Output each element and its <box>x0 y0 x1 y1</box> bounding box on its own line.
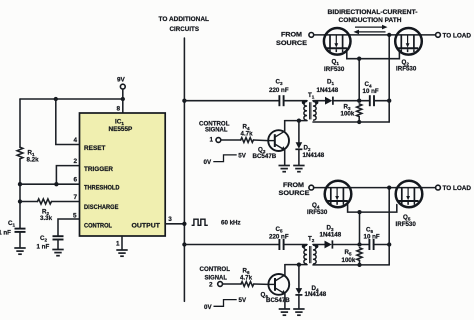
svg-text:10 nF: 10 nF <box>363 88 379 95</box>
arrow: conduction right <box>355 25 388 30</box>
svg-text:CIRCUITS: CIRCUITS <box>170 26 200 33</box>
label: TO ADDITIONAL CIRCUITS <box>159 16 210 33</box>
wire: left rail lower segment <box>19 159 21 228</box>
label: CONTROL SIGNAL 2 <box>200 266 231 289</box>
svg-text:0V: 0V <box>204 159 212 166</box>
wire: Q1 to Q2 <box>351 34 396 36</box>
ground under Q6 emitter <box>279 309 290 315</box>
capacitor C6 <box>364 227 380 251</box>
svg-text:1N4148: 1N4148 <box>305 291 327 298</box>
svg-text:4: 4 <box>74 137 78 144</box>
svg-text:SOURCE: SOURCE <box>279 190 310 197</box>
capacitor C1 <box>0 220 25 237</box>
wire: main oscillator bus <box>183 38 185 301</box>
svg-text:1N4148: 1N4148 <box>303 152 325 159</box>
capacitor C4 <box>363 81 379 106</box>
wire: D3 to gate node (channel 2) <box>332 244 368 246</box>
svg-text:BC547B: BC547B <box>266 297 290 304</box>
wire: C5 to T2 primary top <box>284 244 307 246</box>
wire: Q2 to load terminal <box>422 34 436 36</box>
wire: collector line to T2 primary bottom <box>285 264 307 266</box>
resistor R5 <box>342 248 363 265</box>
terminal: control signal 1 input <box>216 138 221 143</box>
wire: Q6 collector up to transformer line <box>284 265 286 276</box>
op-amp/timer IC U1 NE555P box <box>80 113 166 236</box>
label: BIDIRECTIONAL-CURRENT-CONDUCTION PATH <box>328 9 418 24</box>
ground under C2 <box>52 250 63 256</box>
svg-text:DISCHARGE: DISCHARGE <box>84 204 119 211</box>
svg-text:IRF530: IRF530 <box>396 66 417 73</box>
waveform: 0V/5V step (channel 2) <box>204 297 247 311</box>
node: bus / channel1 branch <box>182 99 186 103</box>
wire: Q3 emitter down to ground <box>284 150 286 165</box>
svg-text:CONTROL: CONTROL <box>84 223 112 230</box>
terminal: TO LOAD (channel 1) <box>436 33 472 40</box>
svg-text:4.7k: 4.7k <box>240 275 253 282</box>
MOSFET Q4 IRF530 <box>307 181 351 216</box>
wire: C3 to T1 primary top <box>284 100 307 102</box>
arrow: conduction left <box>354 30 386 35</box>
wire: Q4 to Q5 <box>351 187 395 189</box>
svg-text:7: 7 <box>74 194 78 201</box>
svg-text:60 kHz: 60 kHz <box>221 219 241 226</box>
resistor R4 <box>241 124 254 143</box>
svg-text:100k: 100k <box>341 111 355 118</box>
node: gate node / R3 top <box>357 99 361 103</box>
diode D4 1N4148 <box>295 265 326 309</box>
node: discharge line / left rail <box>18 199 22 203</box>
svg-text:CONTROL: CONTROL <box>200 266 231 273</box>
MOSFET Q1 IRF530 <box>324 28 351 73</box>
wire: secondary return bottom line (channel 2) <box>313 264 389 266</box>
wire: R5 bottom to secondary return (channel 2) <box>359 260 361 265</box>
svg-text:FROM: FROM <box>283 182 304 189</box>
terminal: FROM SOURCE (channel 2) <box>279 182 314 197</box>
ground under Q3 emitter <box>279 166 290 172</box>
svg-text:SOURCE: SOURCE <box>276 40 307 47</box>
wire: C6 to common node riser (channel 2) <box>374 244 390 246</box>
svg-text:5V: 5V <box>238 153 246 160</box>
wire: discharge line left part <box>20 201 38 203</box>
resistor R2 <box>38 199 53 222</box>
wire: D1 to gate node <box>333 100 369 102</box>
svg-text:SIGNAL: SIGNAL <box>205 275 228 282</box>
node: common tap on Q4-Q5 wire <box>387 185 391 189</box>
svg-text:4.7k: 4.7k <box>241 131 254 138</box>
svg-text:RESET: RESET <box>84 145 106 152</box>
node: gate line tap (channel 2) <box>357 210 361 214</box>
svg-text:9V: 9V <box>117 77 126 84</box>
wire: common riser from Q4-Q5 wire down to secondary return (channel 2) <box>388 188 390 265</box>
wire: R6 to Q6 base <box>254 283 269 285</box>
svg-text:SIGNAL: SIGNAL <box>205 127 228 134</box>
capacitor C2 <box>37 235 64 251</box>
svg-text:1N4148: 1N4148 <box>317 87 339 94</box>
resistor R6 <box>240 268 254 287</box>
transistor Q3 BC547B <box>253 130 290 160</box>
node: common node / C4 <box>387 99 391 103</box>
svg-text:5V: 5V <box>239 297 247 304</box>
svg-text:8: 8 <box>117 106 121 113</box>
wire: 9V terminal to pin 8 <box>122 89 124 113</box>
wire: discharge line right part (pin 7) <box>52 201 80 203</box>
svg-text:1 nF: 1 nF <box>0 230 11 237</box>
node: gate line tap <box>357 57 361 61</box>
diode D1 1N4148 <box>317 79 339 105</box>
wire: gate node riser to gate line (channel 2) <box>359 212 361 244</box>
wire: channel 1 branch to C3 <box>184 100 278 102</box>
svg-text:100k: 100k <box>342 257 356 264</box>
wire: Q3 collector up to transformer line <box>284 121 286 132</box>
wire: control 1 to R4 <box>221 139 241 141</box>
wire: gate node riser to gate line <box>358 59 360 101</box>
wire: from-source to Q1 <box>314 34 324 36</box>
transistor Q6 BC547B <box>261 274 291 304</box>
wire: left rail upper segment <box>19 99 21 147</box>
diode D3 1N4148 <box>320 225 342 249</box>
svg-text:CONDUCTION PATH: CONDUCTION PATH <box>339 17 403 24</box>
svg-text:IRF530: IRF530 <box>396 221 417 228</box>
resistor R3 <box>341 104 362 118</box>
svg-text:2: 2 <box>209 282 213 289</box>
wire: threshold line (pin 6) <box>20 183 80 185</box>
svg-text:NE555P: NE555P <box>109 126 134 133</box>
node: R3 bottom junction <box>357 120 361 124</box>
diode D2 1N4148 <box>295 121 324 165</box>
wire: gate line between Q4 and Q5 <box>348 201 397 212</box>
svg-text:1: 1 <box>210 137 214 144</box>
ground under D2 <box>293 166 304 172</box>
MOSFET Q5 IRF530 <box>396 181 423 228</box>
svg-text:8.2k: 8.2k <box>27 157 40 164</box>
transformer T1 <box>302 92 319 120</box>
svg-text:3.3k: 3.3k <box>40 215 53 222</box>
wire: collector line to T1 primary bottom <box>285 120 307 122</box>
wire: control stub (pin 5) down to C2 <box>58 219 80 236</box>
9V supply terminal <box>117 77 126 90</box>
wire: secondary return bottom line <box>313 121 389 123</box>
svg-text:TO LOAD: TO LOAD <box>443 33 472 40</box>
ground under D4 <box>293 309 304 315</box>
node: bus / channel2 branch <box>182 242 186 246</box>
wire: control 2 to R6 <box>223 283 242 285</box>
svg-text:BC547B: BC547B <box>253 153 277 160</box>
wire: channel 2 branch to C5 <box>184 244 278 246</box>
svg-text:TRIGGER: TRIGGER <box>84 166 113 173</box>
wire: C2 to ground <box>57 240 59 250</box>
svg-text:1 nF: 1 nF <box>37 244 50 251</box>
svg-text:2: 2 <box>74 158 78 165</box>
node: common node / C6 <box>387 242 391 246</box>
wire: R4 to Q3 base <box>254 139 269 142</box>
svg-text:6: 6 <box>74 177 78 184</box>
svg-text:OUTPUT: OUTPUT <box>132 223 161 230</box>
node: R5 bottom junction <box>357 263 361 267</box>
svg-text:10 nF: 10 nF <box>364 234 380 241</box>
svg-text:FROM: FROM <box>281 32 302 39</box>
wire: pin 1 to ground <box>121 236 123 250</box>
wire: R3 bottom to secondary return <box>358 117 360 122</box>
node: trigger/threshold junction <box>54 182 58 186</box>
ground under pin 1 <box>116 250 127 256</box>
svg-text:IRF530: IRF530 <box>307 209 328 216</box>
svg-text:BIDIRECTIONAL-CURRENT-: BIDIRECTIONAL-CURRENT- <box>328 9 418 16</box>
svg-text:0V: 0V <box>204 304 212 311</box>
resistor R1 <box>17 147 39 163</box>
wire: 9V rail horizontal <box>20 98 123 100</box>
label: CONTROL SIGNAL 1 <box>199 121 230 144</box>
svg-text:3: 3 <box>168 216 172 223</box>
svg-text:IRF530: IRF530 <box>324 66 345 73</box>
node: bus / output <box>182 222 186 226</box>
terminal: TO LOAD (channel 2) <box>436 185 472 192</box>
wire: common riser from Q1-Q2 wire down to secondary return <box>388 35 390 122</box>
terminal: FROM SOURCE (channel 1) <box>276 32 314 48</box>
MOSFET Q2 IRF530 <box>395 28 422 73</box>
svg-text:TO LOAD: TO LOAD <box>443 185 472 192</box>
node: common tap on Q1-Q2 wire <box>387 33 391 37</box>
wire: Q5 to load terminal (channel 2) <box>422 187 435 189</box>
wire: C1 to ground <box>19 232 21 248</box>
wire: trigger stub (pin 2) down to threshold line <box>56 166 79 185</box>
svg-text:220 nF: 220 nF <box>269 234 289 241</box>
svg-text:TO ADDITIONAL: TO ADDITIONAL <box>159 16 210 23</box>
wire: C4 to common node riser <box>374 100 389 102</box>
node: D2 tap <box>297 118 301 122</box>
svg-text:THRESHOLD: THRESHOLD <box>84 184 120 191</box>
node: D4 tap <box>297 262 301 266</box>
transformer T2 <box>302 236 319 264</box>
node: gate node / R5 top <box>357 242 361 246</box>
wire: T1 secondary top to D1 <box>313 100 325 102</box>
waveform symbol: 60 kHz square wave <box>192 219 208 225</box>
wire: pin 4 riser and stub <box>56 99 80 145</box>
svg-text:5: 5 <box>73 213 77 220</box>
wire: T2 secondary top to D3 <box>313 244 325 246</box>
svg-text:220 nF: 220 nF <box>269 87 289 94</box>
capacitor C3 <box>269 79 289 107</box>
wire: output pin 3 stub <box>165 223 184 225</box>
wire: gate line between Q1 and Q2 <box>347 48 400 58</box>
waveform: 0V/5V step (channel 1) <box>204 153 247 167</box>
node: 9V rail / pin8 riser junction <box>121 97 125 101</box>
capacitor C5 <box>269 226 289 250</box>
node: 9V rail / pin4 riser junction <box>54 97 58 101</box>
svg-text:1: 1 <box>116 241 120 248</box>
wire: from-source to Q4 <box>314 187 325 189</box>
node: threshold line / left rail <box>18 182 22 186</box>
wire: Q6 emitter down to ground <box>284 294 286 309</box>
ground under C1 <box>14 248 25 254</box>
svg-text:1N4148: 1N4148 <box>320 232 342 239</box>
terminal: control signal 2 input <box>218 282 223 287</box>
